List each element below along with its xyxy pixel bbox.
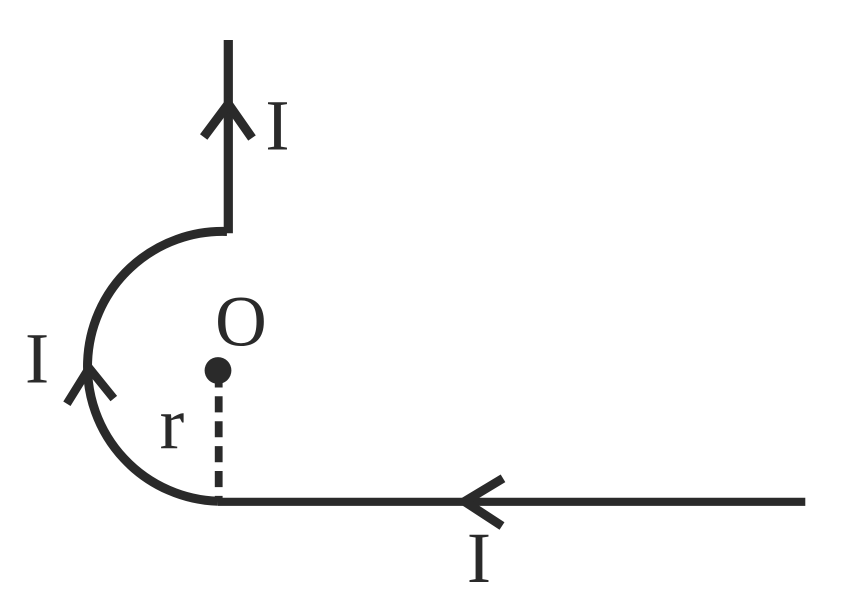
svg-text:O: O xyxy=(215,283,267,362)
svg-text:r: r xyxy=(160,383,185,465)
wire: vertical lead carrying current I upward xyxy=(224,40,233,233)
node O: center point dot xyxy=(205,357,232,384)
svg-text:I: I xyxy=(25,318,49,399)
radius r: dashed line from O to bottom wire xyxy=(215,381,223,502)
arrowhead on vertical wire (current I up) xyxy=(204,104,252,138)
wire: horizontal lead carrying current I leftward xyxy=(218,498,805,506)
svg-text:I: I xyxy=(265,85,289,166)
svg-text:I: I xyxy=(467,517,491,598)
arrowhead on arc (current I up along left side) xyxy=(67,368,114,404)
wire: semicircular arc of radius r around point O xyxy=(88,231,227,501)
arrowhead on horizontal wire (current I left) xyxy=(465,478,504,526)
